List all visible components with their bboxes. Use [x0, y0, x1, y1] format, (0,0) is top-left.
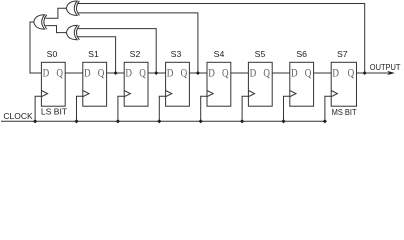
- wire: S5 Q to S6 D: [272, 72, 290, 74]
- svg-text:D: D: [291, 67, 298, 80]
- flip-flop S5 box: [248, 62, 272, 106]
- wire: feedback net A upper input from S7 (top horizontal + right vertical): [78, 4, 365, 74]
- svg-text:D: D: [332, 67, 339, 80]
- wire: clock rail: [1, 120, 325, 122]
- svg-text:Q: Q: [56, 67, 63, 80]
- wire: clock stub S5: [242, 96, 248, 121]
- svg-text:S0: S0: [47, 49, 58, 59]
- wire: S2 Q to S3 D: [148, 72, 166, 74]
- wire: S4 Q to S5 D: [231, 72, 249, 74]
- svg-text:MS BIT: MS BIT: [332, 107, 358, 117]
- wire: XOR U1 output to U3 upper input: [46, 8, 67, 18]
- junction dot: clock S5: [240, 119, 244, 123]
- junction dot: clock S3: [157, 119, 161, 123]
- flip-flop S3 clock wedge: [166, 91, 172, 97]
- svg-text:OUTPUT: OUTPUT: [370, 63, 401, 72]
- svg-text:D: D: [125, 67, 132, 80]
- svg-text:S7: S7: [337, 49, 348, 59]
- flip-flop S5 clock wedge: [248, 91, 254, 97]
- flip-flop S2 clock wedge: [124, 91, 130, 97]
- XOR gate U1 (top, left-facing): [66, 1, 79, 15]
- wire: clock stub S3: [159, 96, 165, 121]
- junction dot: clock S0: [33, 119, 37, 123]
- svg-text:D: D: [43, 67, 50, 80]
- svg-text:Q: Q: [348, 67, 355, 80]
- svg-text:D: D: [208, 67, 215, 80]
- svg-text:Q: Q: [139, 67, 146, 80]
- junction dot: clock S4: [199, 119, 203, 123]
- svg-text:S1: S1: [88, 49, 99, 59]
- wire: clock stub S2: [118, 96, 124, 121]
- wire: clock stub S0: [35, 96, 41, 121]
- wire: feedback net A lower input from S3/S4 node: [78, 13, 198, 73]
- svg-text:D: D: [250, 67, 257, 80]
- flip-flop S0 box: [41, 62, 65, 106]
- svg-text:D: D: [167, 67, 174, 80]
- svg-text:Q: Q: [98, 67, 105, 80]
- svg-text:LS BIT: LS BIT: [41, 107, 68, 117]
- arrowhead of OUTPUT: [387, 71, 395, 75]
- flip-flop S1 box: [83, 62, 107, 106]
- svg-text:Q: Q: [305, 67, 312, 80]
- wire: S3 Q to S4 D: [189, 72, 207, 74]
- flip-flop S4 clock wedge: [207, 91, 213, 97]
- svg-text:Q: Q: [181, 67, 188, 80]
- junction dot: tap S3/S4: [196, 71, 200, 75]
- flip-flop S1 clock wedge: [83, 91, 89, 97]
- flip-flop S6 clock wedge: [290, 91, 296, 97]
- flip-flop S6 box: [290, 62, 314, 106]
- flip-flop S3 box: [166, 62, 190, 106]
- wire: S6 Q to S7 D: [314, 72, 332, 74]
- flip-flop S7 box: [331, 62, 356, 106]
- junction dot: clock S2: [116, 119, 120, 123]
- flip-flop S4 box: [207, 62, 231, 106]
- wire: feedback net B upper input from S2/S3 node: [78, 29, 157, 73]
- junction dot: clock S6: [281, 119, 285, 123]
- wire: S0 Q to S1 D: [65, 72, 83, 74]
- wire: clock stub S1: [77, 96, 83, 121]
- wire: clock stub S4: [201, 96, 207, 121]
- XOR gate U2 (bottom, left-facing): [66, 25, 79, 39]
- wire: XOR U3 output down to S0 D input: [30, 22, 41, 73]
- svg-text:Q: Q: [222, 67, 229, 80]
- wire: clock stub S6: [284, 96, 290, 121]
- svg-text:Q: Q: [263, 67, 270, 80]
- junction dot: S7 output tap: [363, 71, 367, 75]
- wire: XOR U2 output to U3 lower input: [46, 26, 67, 33]
- wire: S1 Q to S2 D: [107, 72, 125, 74]
- flip-flop S0 clock wedge: [41, 91, 47, 97]
- flip-flop S7 clock wedge: [331, 91, 337, 97]
- svg-text:S2: S2: [130, 49, 141, 59]
- svg-text:S4: S4: [214, 49, 225, 59]
- junction dot: clock S7: [323, 119, 327, 123]
- junction dot: tap S2/S3: [154, 71, 158, 75]
- junction dot: clock S1: [74, 119, 78, 123]
- XOR gate U3 (left, left-facing): [34, 15, 47, 29]
- svg-text:D: D: [84, 67, 91, 80]
- wire: clock stub S7: [325, 96, 331, 121]
- junction dot: tap S1/S2: [114, 71, 118, 75]
- wire: feedback net B lower input from S1/S2 node: [78, 37, 116, 73]
- wire: S7 Q to OUTPUT arrow: [357, 72, 392, 74]
- svg-text:S5: S5: [255, 49, 266, 59]
- flip-flop S2 box: [124, 62, 148, 106]
- svg-text:CLOCK: CLOCK: [3, 111, 33, 121]
- svg-text:S3: S3: [171, 49, 182, 59]
- svg-text:S6: S6: [296, 49, 307, 59]
